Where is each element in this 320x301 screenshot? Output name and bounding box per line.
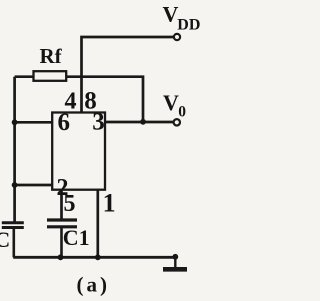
- wire pin 1 to ground rail: [96, 190, 99, 258]
- svg-text:C: C: [0, 227, 10, 252]
- node junction pin6 left rail: [12, 119, 18, 125]
- svg-text:5: 5: [64, 191, 76, 217]
- svg-text:(a): (a): [77, 273, 111, 297]
- svg-text:6: 6: [58, 109, 71, 136]
- wire left rail: [13, 77, 16, 222]
- wire bottom rail: [13, 256, 175, 259]
- capacitor C1: [47, 220, 77, 257]
- svg-text:V: V: [163, 2, 179, 27]
- svg-text:V: V: [163, 90, 179, 115]
- svg-text:0: 0: [178, 104, 186, 121]
- resistor Rf: [34, 71, 67, 81]
- wire pin 6: [15, 121, 53, 124]
- svg-text:C1: C1: [63, 225, 90, 250]
- node junction pin1 bottom: [95, 254, 101, 260]
- label V0: [163, 90, 186, 121]
- node junction C1 bottom: [58, 254, 64, 260]
- wire Rf net: left rail corner to resistor: [15, 75, 34, 78]
- terminal V0: [174, 119, 180, 125]
- wire pin 2: [15, 184, 53, 187]
- op-amp U1 555 timer box: [52, 113, 105, 190]
- wire VDD rail top: [82, 37, 174, 113]
- wire resistor right lead to output node: [66, 77, 143, 122]
- node junction output: [140, 119, 146, 125]
- terminal VDD: [174, 34, 180, 40]
- wire pin 5 to C1: [60, 190, 63, 219]
- svg-text:DD: DD: [177, 17, 200, 34]
- wire pin 3 output to V0: [105, 121, 174, 124]
- svg-text:Rf: Rf: [40, 44, 63, 68]
- node junction ground: [172, 254, 178, 260]
- ground: [163, 257, 187, 269]
- svg-text:3: 3: [92, 109, 105, 136]
- capacitor C: [2, 223, 24, 257]
- label VDD: [163, 2, 201, 34]
- node junction pin2 left rail: [12, 182, 18, 188]
- svg-text:1: 1: [103, 189, 116, 218]
